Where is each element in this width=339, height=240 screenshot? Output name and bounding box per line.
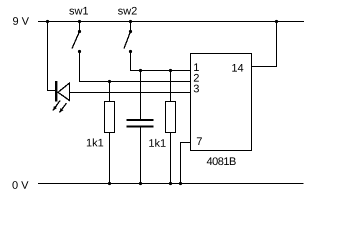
node 0V label <box>12 181 28 189</box>
resistor R1 body <box>105 102 115 133</box>
pin 14 label <box>232 64 243 72</box>
switch sw1 label <box>69 7 88 15</box>
wire R2 bottom <box>170 133 172 184</box>
wire IC pin 14 to 9V rail <box>252 22 277 67</box>
junction pin7 wire on 0V rail <box>179 182 182 185</box>
wire sw1 to IC pin 2 <box>80 52 191 82</box>
wire R2 top <box>170 71 172 102</box>
wire R1 bottom <box>109 133 111 184</box>
node 9V label <box>13 17 29 25</box>
switch sw2 label <box>118 7 137 15</box>
junction R2 on 0V rail <box>169 182 172 185</box>
pin 7 label <box>197 137 202 145</box>
wire 9V rail to LED cathode <box>48 22 56 92</box>
IC U1 4081B body <box>191 54 252 151</box>
wire LED anode to IC pin 3 <box>69 92 191 94</box>
LED light arrow 1 <box>53 101 60 111</box>
pin 2 label <box>194 74 199 82</box>
pin 3 label <box>194 85 199 93</box>
junction C1 top on pin1 line <box>139 69 142 72</box>
wire C1 top <box>140 71 142 121</box>
resistor R2 value 1k1 <box>149 139 165 147</box>
junction pin14 wire on 9V rail <box>275 20 278 23</box>
wire R1 top <box>109 82 111 102</box>
wire C1 bottom <box>140 128 142 184</box>
junction LED branch on 9V rail <box>46 20 49 23</box>
IC U1 value 4081B <box>207 157 236 165</box>
resistor R1 value 1k1 <box>87 138 103 146</box>
pin 1 label <box>194 63 199 71</box>
junction R1 top on pin2 line <box>108 80 111 83</box>
9V supply rail <box>38 21 304 23</box>
LED D1 <box>55 81 70 102</box>
junction C1 on 0V rail <box>139 182 142 185</box>
wire IC pin 7 to 0V rail <box>181 143 191 184</box>
wire sw2 to IC pin 1 <box>131 52 191 71</box>
LED light arrow 2 <box>60 103 67 113</box>
capacitor C1 <box>127 120 154 127</box>
junction R1 on 0V rail <box>108 182 111 185</box>
0V supply rail <box>38 183 304 185</box>
switch sw1 <box>72 20 81 53</box>
resistor R2 body <box>166 102 176 133</box>
switch sw2 <box>124 20 132 53</box>
junction R2 top on pin1 line <box>169 69 172 72</box>
